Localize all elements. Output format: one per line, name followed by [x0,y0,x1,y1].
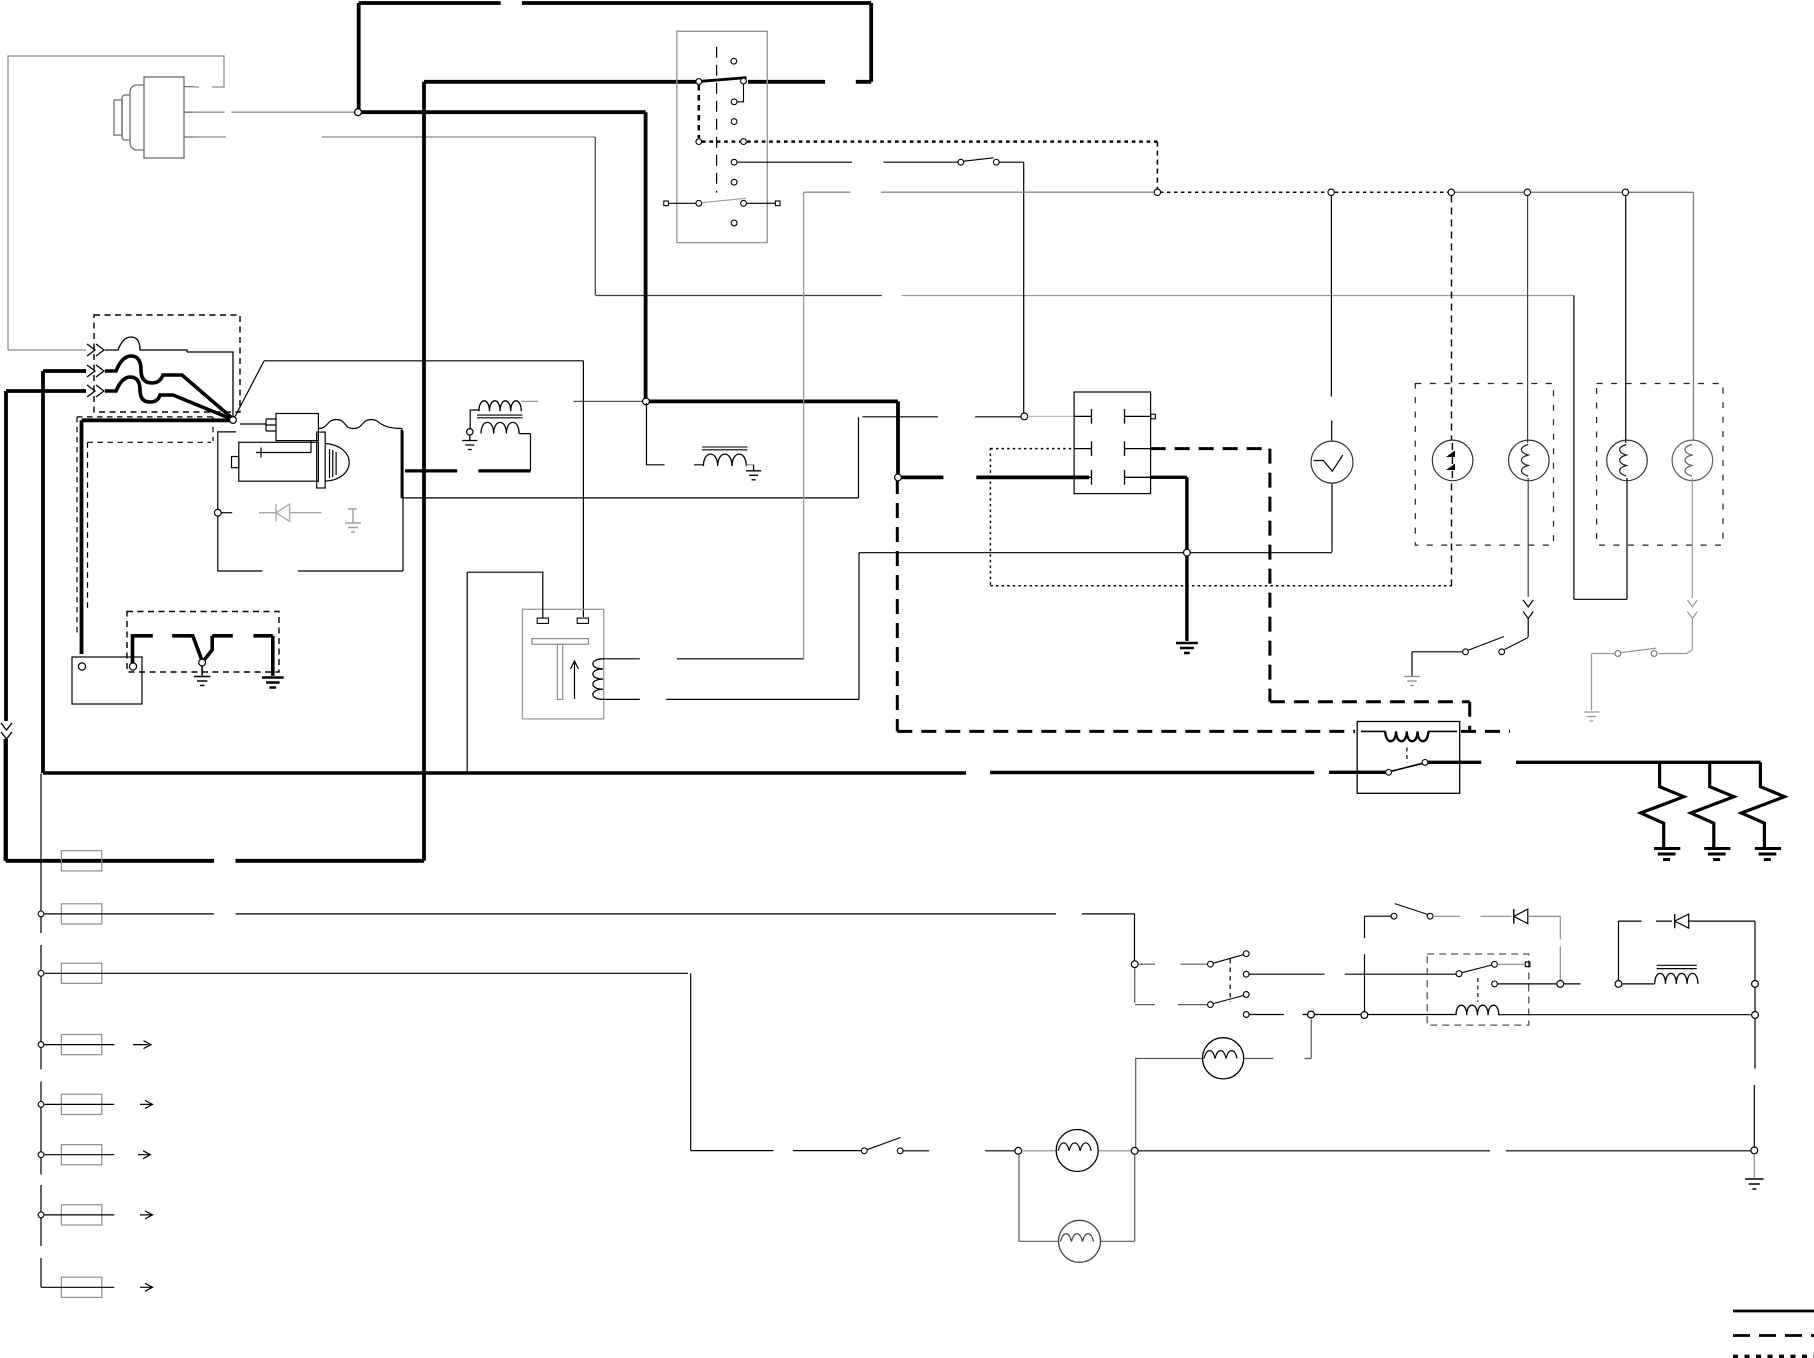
node: fuse row5 tap [38,1102,44,1108]
wire: harness squiggle 2 (thick) [105,356,233,419]
fuse F8 [61,1277,101,1297]
wire: feed into pin1 from frame [8,349,86,351]
wire: battery negative thick L [133,636,153,663]
wire: gray lamp feed right y192 [1455,192,1694,440]
wire: K2 coil line to right rail [1499,1014,1752,1016]
wire: starter box right vertical to coil return [401,429,403,498]
wire: dashed drop through lamp A [1451,196,1453,586]
wire: flasher output to dropping resistors [1428,761,1761,764]
wire: ground V junction thick [172,636,233,662]
wire: big dashed box left and bottom [897,479,1510,731]
fuse F5 [61,1094,101,1114]
legend: solid line [1733,1310,1814,1313]
switch SW7 [1391,913,1397,919]
wire: thick bus from node A down to coil node [359,3,646,400]
node: fuse row2 tap [38,911,44,917]
wire: primary right lead [521,400,538,402]
wire: lamp G leads [1136,1018,1312,1147]
resistor R1 [1641,762,1684,847]
lamp C [1607,440,1648,481]
noise suppressor L1 winding [703,454,746,466]
fuse F1 [61,851,101,871]
ignition switch long-dash centerline [716,47,718,193]
fuse F7 [61,1205,101,1225]
wire: long thin return to alternator area [401,417,858,498]
node: starter box left terminal [214,509,221,516]
horn coil L2 core [1657,965,1697,968]
wire: thick ignition feed to relay connector [650,401,1090,477]
connector block J2 box [1074,392,1151,494]
connector chevrons below lamp B [1523,600,1533,637]
node: lamp E right tap [1131,1147,1138,1154]
connector J1 chevron pin 1 [87,344,104,356]
ground: right thick [262,678,284,688]
ignition switch key cylinder SW1 body [114,77,193,158]
lamp D [1672,440,1713,481]
wire: SW8 to lamp E [903,1150,1015,1152]
wire: dotted lamp feed y192 [1160,191,1448,193]
wire: SW7 to diode D1 [1433,915,1512,917]
horn coil L2 winding [1655,973,1698,984]
switch SW3 contacts [958,159,964,165]
wire: riser to heater switch SW7 [1365,916,1392,1011]
starter M1 motor body [232,432,350,488]
connector J2 row2 pins [1074,441,1151,456]
node: gauge feed tap [1328,189,1334,195]
wire: thick feed into pin2 [43,371,86,773]
ignition coil T1 secondary winding [481,422,519,433]
legend: dashed line [1733,1334,1814,1337]
distributor pickup coil [593,659,603,700]
wire: right rail [1753,987,1756,1147]
ground: connector row3 [1176,643,1198,653]
distributor terminal pads [537,618,548,623]
wire: thick starter-to-coil link [405,469,531,472]
wire: node to ignition coil primary line [235,361,584,418]
node: lamp C tap [1622,189,1628,195]
gauge G1 [1311,441,1353,483]
ignition coil T1 primary winding [479,401,521,412]
switch SW5 below lamp D [1621,648,1657,653]
lamp F filament [1061,1234,1094,1242]
wire: SW6 throw2 to turn relay [1249,973,1456,975]
wire: cylinder pin3 [193,136,595,138]
connector chevrons below lamp D [1658,600,1697,654]
node: heater switch riser tap [1361,1012,1368,1019]
wire: harness squiggle 1 (thin) [105,337,187,352]
switch SW3 blade [964,158,994,161]
node: harness junction [230,417,237,424]
relay K2 coil [1456,1005,1499,1015]
node: coil ground node [467,429,473,435]
lamp A (indicator) [1432,440,1473,481]
switch blade lower [702,198,746,202]
wire: fuse row3 circuit [45,973,862,1150]
wire: fuse row5 stub and arrow [45,1100,153,1108]
wire: fuse row2 circuit [45,914,1135,961]
wire: fuse row4 stub and arrow [45,1041,152,1049]
battery dashed outline [127,612,279,673]
wire: lower switch leads [668,202,775,204]
wire: lamp B vertical [1527,196,1530,598]
flasher relay K1 box [1357,722,1460,794]
node: fuse row6 tap [38,1152,44,1158]
wire: D1 junction to horn coil [1564,983,1655,985]
wire: suppressor left lead [647,403,704,465]
lamp E [1056,1130,1098,1172]
diode D1 [1513,909,1515,924]
wire: pickup coil upper lead [603,658,804,660]
wire: thick dashed row2 branch [1151,449,1470,732]
starter M1 enclosure box [218,431,403,571]
relay K2 switch [1456,971,1462,977]
wire: secondary right lead loop [519,434,530,471]
ground: R2 [1704,849,1730,860]
node: diode D1 junction [1557,981,1564,988]
lamp B filament [1521,445,1528,477]
flasher relay K1 actuator dashes [1406,748,1408,764]
wire: right thick ground drop [253,636,272,676]
lamp cluster dashed box 1 [1415,384,1553,546]
relay K2 dashed box [1427,954,1529,1025]
wire: SW4 to ground [1412,652,1463,676]
switch SW6 (double) contacts [1208,951,1250,1018]
connector J1 chevron pin 2 [87,365,104,377]
diode D3 in starter box [259,504,322,521]
node: diode D2 branch [1615,981,1622,988]
wire: accessory contact line with inline switch SW3 [737,162,1024,413]
wire: harness squiggle 3 (thick) [105,377,233,420]
wire: D1 to junction [1528,916,1561,980]
connector J2 row1 pins [1074,409,1151,424]
node: lamp G feed tap [1308,1011,1315,1018]
wire: SW5 to ground [1592,654,1616,711]
resistor R2 [1691,762,1734,847]
dashed guide box edges (left) [77,417,213,636]
wire: lamp D vertical [1691,478,1693,598]
wire: blade contact link [737,84,744,102]
wire: gauge feed vertical [1330,196,1333,552]
wire: fuse row6 stub and arrow [45,1151,151,1159]
node: right rail top [1752,981,1759,988]
wire: feed to switch common1 [1138,963,1208,965]
wire: lamp F parallel branch [1019,1154,1135,1241]
fuse F4 [61,1035,101,1055]
wire: cylinder pin2 to node A [193,111,355,113]
fuse F2 [61,904,101,924]
node: lamp B tap [1524,189,1530,195]
ground: ignition coil [462,435,477,450]
wire: thick feed into pin3 with inline connector [6,391,86,861]
connector J1 chevron pin 3 [87,385,104,397]
wire: gray drop to distributor coil [803,192,805,659]
dotted box around gauge circuit [990,448,1452,586]
wire: pin3 drop and accessory feed to right [595,137,882,296]
wire: rail to ground [1753,1154,1755,1178]
ignition switch SW2 box [677,31,768,242]
connector J1 dashed outline [94,315,240,412]
flasher relay K1 coil [1361,730,1457,732]
distributor DIST box [522,609,603,719]
node: battery bus tap at cylinder feed [355,109,362,116]
ground: SW5 [1584,712,1600,721]
node: ground junction [199,659,206,666]
wire: thick battery bus top loop [6,3,1090,861]
diode D2 [1674,914,1676,928]
lamp F [1059,1220,1101,1262]
node: battery bus tap (top) [355,109,362,116]
dashed guide box edges (inner) [88,442,212,608]
wire: suppressor right lead [746,464,753,466]
wire: gray accessory line y192 [804,191,1155,193]
ignition switch blade (main) [701,78,747,82]
wire: thick dashed start feed inside switch [698,85,701,138]
lamp G filament [1204,1051,1237,1059]
ground: right rail [1745,1179,1764,1189]
wire: lamp E leads [1022,1150,1132,1152]
wire: dotted circuit corner drop [1156,142,1158,190]
wire: gauge sender line y552 [859,552,1332,554]
node: sender line junction [1184,549,1191,556]
ground: SW4 [1404,677,1420,686]
wire: ignition coil to distributor vertical [582,361,584,617]
legend: dotted line [1733,1355,1814,1358]
ignition switch contact pins [696,58,747,226]
lamp B [1509,440,1550,481]
node: lamp A tap [1448,189,1454,195]
wire: D2 to right rail [1689,921,1755,980]
connector J2 row1 terminal square [1151,414,1156,419]
node: coil feed junction [643,398,650,405]
wire: thin link to relay node [862,416,1021,418]
wire: node to connector row1 (light) [1028,415,1089,417]
lamp cluster dashed box 2 [1597,384,1723,546]
lamp D filament [1685,445,1692,477]
ground: R1 [1654,849,1680,860]
node: thick junction at dashed box corner [895,474,902,481]
wire: D2 branch loop [1619,921,1673,980]
flasher relay K1 switch blade [1391,763,1422,771]
distributor rotation arrow [571,661,579,699]
relay K2 second contact [1492,981,1498,987]
fuse F3 [61,963,101,983]
wire: cylinder pin1 to frame [193,86,218,88]
wire: dotted ignition circuit horizontal [702,140,1157,143]
gauge G1 needle mark [1314,455,1343,471]
ground: battery center [194,666,210,686]
wire: thick fuse row1 feed [6,859,425,863]
node: right rail mid [1752,1012,1759,1019]
node: heater switch feed [1131,961,1138,968]
switch SW6 blades [1213,955,1243,1004]
node: lamp E left tap [1015,1147,1022,1154]
wire: heater feed vertical from fuse row2 [1135,968,1208,1005]
wire: main thick rail y773 to flasher [43,771,1386,775]
node: right rail ground tap [1751,1147,1758,1154]
ignition coil T1 core [477,415,523,418]
switch SW6 gang dashes [1229,959,1231,1002]
wire: SW6 throw4 run [1249,1014,1456,1016]
wire: lamp line to right rail [1138,1150,1751,1152]
ground: R3 [1755,849,1781,860]
wire: solenoid squiggle to box edge [318,420,402,429]
resistor R3 [1741,762,1784,847]
wire: fuse row8 stub and arrow [41,1283,153,1291]
wire: dotted lead into row2 [990,448,1074,450]
fuse F6 [61,1145,101,1165]
wire: distributor left pad feed [467,572,543,771]
starter M1 solenoid [240,414,318,441]
node: fuse row4 tap [38,1042,44,1048]
ground: starter box internal [345,509,361,532]
ignition switch lower contacts row [664,201,669,206]
node: relay feed junction [1021,413,1028,420]
lamp G [1203,1038,1244,1079]
noise suppressor L1 core [702,447,748,450]
switch SW8 on lamp line [861,1148,867,1154]
node: battery positive terminal [78,663,85,670]
connector chevrons on left drop wire [1,723,12,739]
distributor rotor T bar [532,639,589,645]
wire: thick row3 branch to ground [1151,477,1187,641]
battery BT1 [72,657,142,704]
lamp C filament [1620,445,1627,477]
node: battery negative terminal [129,663,136,670]
relay K2 actuator dashes [1477,978,1479,1002]
wire: outer thin frame top-left [8,56,224,350]
wire: lamp C vertical [1574,196,1627,600]
lamp E filament [1058,1143,1091,1151]
connector J2 row3 pins [1074,470,1151,485]
ground: suppressor [746,465,761,480]
fuse block feed column [40,774,42,1288]
node: dotted joint [1154,189,1160,195]
wire: thick run from node to battery [82,420,234,654]
switch SW4 below lamp B [1505,638,1529,650]
wire: primary left lead down to coil node [470,410,479,430]
node: fuse row3 tap [38,970,44,976]
node: fuse row7 tap [38,1212,44,1218]
wire: pickup coil lower lead [603,553,859,700]
wire: fuse row7 stub and arrow [45,1211,153,1219]
